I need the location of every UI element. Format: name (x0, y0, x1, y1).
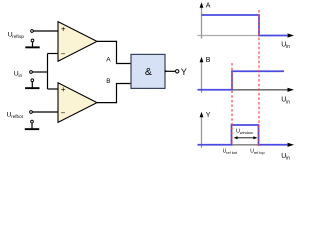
svg-text:in: in (19, 73, 23, 78)
label U_refbot (7, 112, 24, 120)
signal trace A (202, 15, 288, 36)
op-amp U1 (58, 22, 97, 62)
terminal U_in return (31, 79, 34, 82)
graph A axes (198, 2, 295, 38)
svg-text:ref top: ref top (254, 151, 265, 155)
svg-text:window: window (240, 130, 253, 135)
svg-text:B: B (106, 78, 110, 85)
svg-text:refbot: refbot (11, 114, 23, 119)
svg-text:in: in (286, 99, 290, 105)
terminal U_refbot return (31, 120, 34, 123)
terminal U_refbot (30, 111, 33, 114)
graph B axes (198, 57, 295, 93)
wire U_reftop to op-amp + (33, 30, 58, 32)
svg-text:in: in (286, 156, 290, 162)
terminal U_reftop return (31, 39, 34, 42)
wire AND output to Y terminal (165, 70, 176, 72)
svg-text:A: A (106, 56, 111, 63)
svg-text:+: + (61, 24, 66, 33)
terminal Y (176, 70, 179, 73)
signal trace Y (198, 125, 288, 145)
value label U_refbot (223, 149, 238, 155)
svg-text:ref bot: ref bot (226, 151, 238, 155)
threshold line U_reftop (red dashed) (258, 10, 260, 146)
terminal U_reftop (31, 30, 34, 33)
signal trace B (198, 71, 285, 90)
svg-text:in: in (286, 44, 290, 50)
AND gate U3 (131, 54, 165, 88)
svg-text:Y: Y (181, 67, 187, 77)
svg-text:+: + (61, 85, 66, 94)
svg-text:−: − (61, 109, 66, 118)
wire op-amp U2 output to AND input B (97, 84, 131, 103)
svg-text:B: B (206, 57, 211, 64)
wire U_refbot to op-amp - (32, 111, 58, 113)
ground (25, 42, 39, 48)
ground (25, 82, 39, 89)
graph A U_in label (281, 41, 290, 50)
ground (25, 123, 39, 130)
op-amp U2 (58, 83, 97, 123)
svg-text:&: & (145, 66, 152, 78)
label U_reftop (8, 31, 25, 39)
dimension arrow U_window (234, 136, 258, 139)
value label U_reftop (250, 149, 264, 155)
wire op-amp U1 output to AND input A (97, 41, 131, 63)
value label U_window (236, 129, 253, 135)
svg-text:Y: Y (206, 112, 211, 119)
wire U_in to junction (32, 71, 48, 73)
wire junction U_in node (48, 54, 59, 90)
label U_in (14, 71, 23, 79)
graph Y U_in label (281, 153, 290, 162)
threshold line U_refbot (red dashed) (231, 63, 233, 146)
svg-text:A: A (206, 3, 211, 10)
graph B U_in label (281, 97, 290, 106)
terminal U_in (30, 71, 33, 74)
svg-text:−: − (61, 49, 66, 58)
svg-text:reftop: reftop (12, 34, 24, 39)
graph Y axes (198, 112, 295, 148)
